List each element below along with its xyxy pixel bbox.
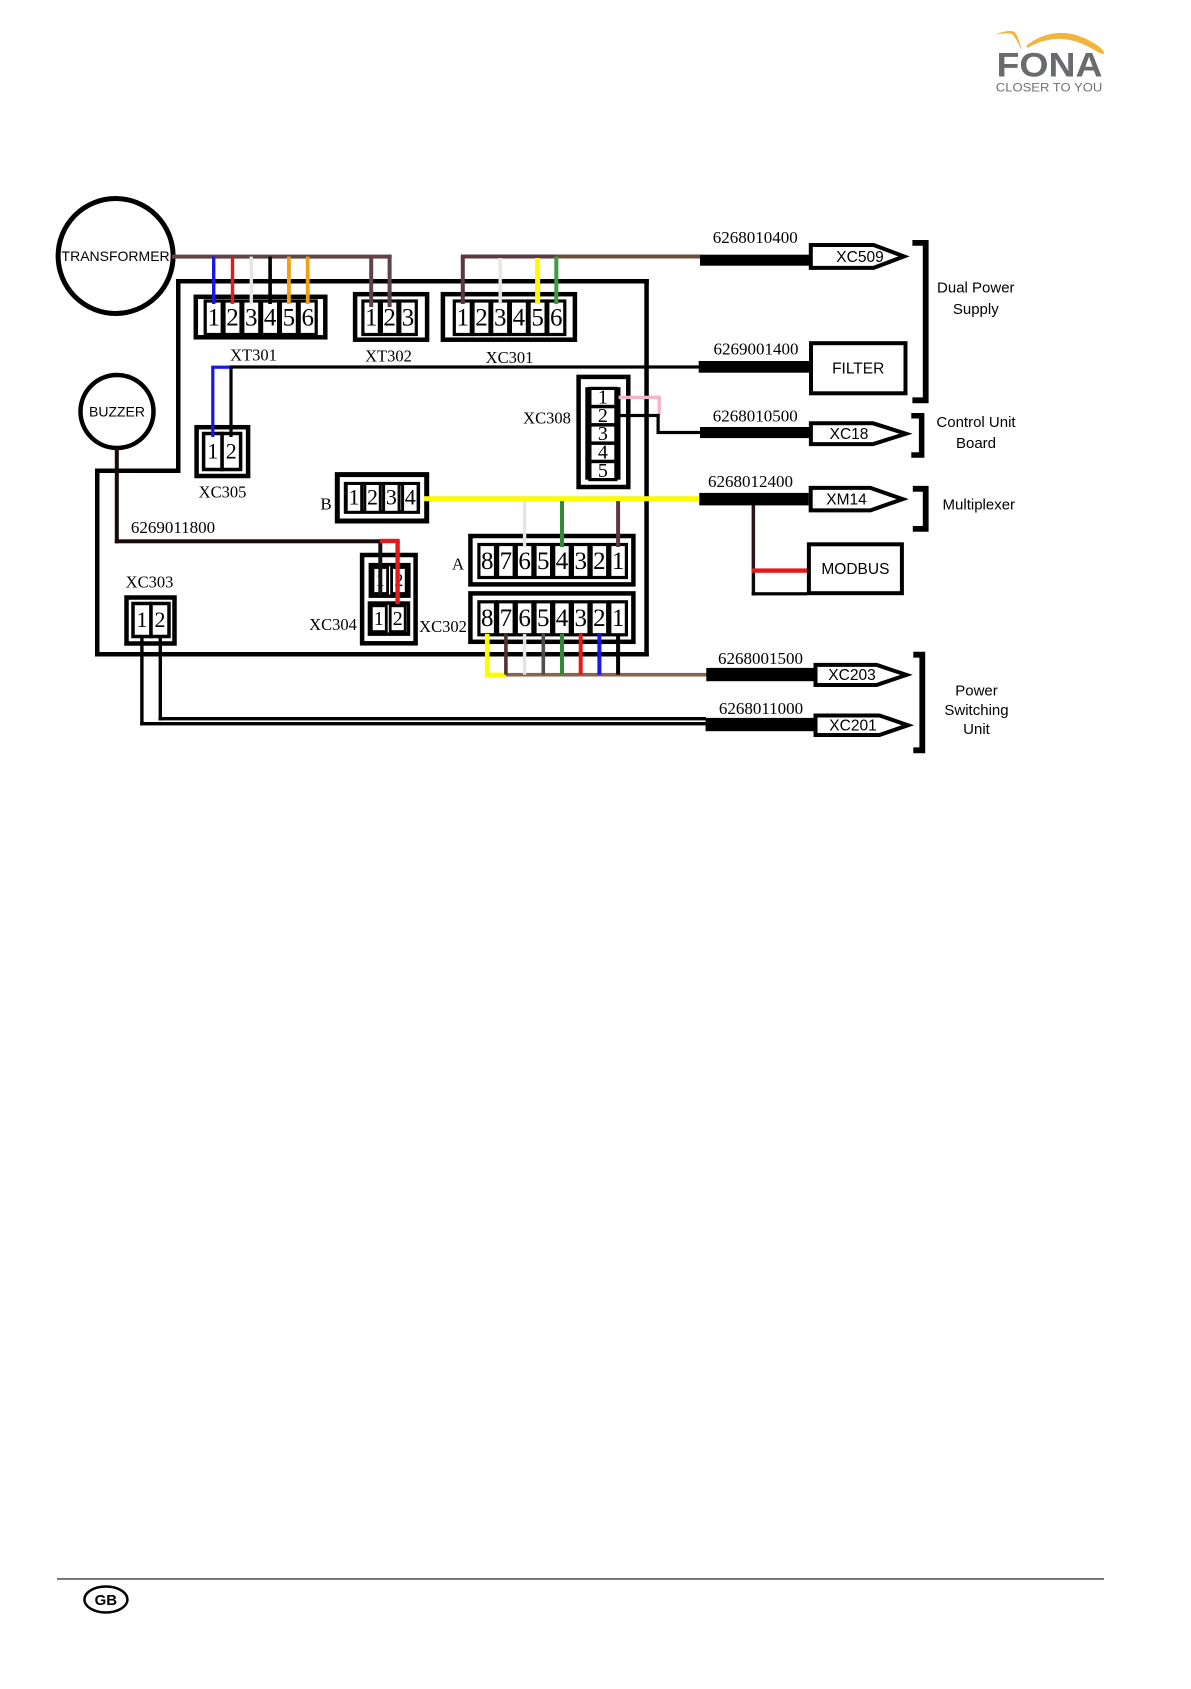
- svg-text:2: 2: [226, 438, 237, 463]
- svg-text:1: 1: [612, 548, 625, 575]
- connector XC201 (arrow): [816, 716, 909, 736]
- wire XT301 pin1 blue: [212, 257, 215, 304]
- wire XC302 pin4 green: [560, 634, 564, 675]
- svg-text:5: 5: [598, 460, 608, 482]
- wire XC308 pin1 pink: [619, 396, 661, 415]
- svg-text:1: 1: [349, 485, 360, 510]
- svg-text:4: 4: [556, 605, 569, 632]
- svg-text:3: 3: [245, 305, 258, 332]
- wire into XC304 lower pin2 (red): [380, 539, 400, 604]
- svg-text:6: 6: [518, 548, 531, 575]
- svg-text:XC509: XC509: [836, 249, 883, 266]
- svg-text:3: 3: [574, 548, 587, 575]
- cable 6268012400: [699, 493, 808, 506]
- cable 6268010500: [700, 427, 809, 438]
- wire XC302 pin6 white: [523, 634, 526, 675]
- MODBUS box: [809, 544, 902, 593]
- svg-text:Supply: Supply: [953, 301, 999, 318]
- wire bundle to 6268001500 (brown): [506, 673, 707, 677]
- label Control Unit Board: [936, 414, 1016, 452]
- svg-text:5: 5: [537, 605, 550, 632]
- svg-text:Dual Power: Dual Power: [937, 280, 1015, 297]
- connector XC301: [443, 294, 575, 340]
- label Dual Power Supply: [937, 280, 1015, 319]
- svg-text:1: 1: [457, 305, 470, 332]
- svg-text:Switching: Switching: [944, 702, 1008, 719]
- svg-text:6269001400: 6269001400: [714, 340, 799, 359]
- svg-text:TRANSFORMER: TRANSFORMER: [62, 248, 170, 264]
- label XC308: [523, 409, 571, 428]
- label XT301: [230, 346, 277, 365]
- svg-text:7: 7: [500, 605, 513, 632]
- svg-text:1: 1: [365, 305, 378, 332]
- wire into XC304 upper pin1 (black): [378, 541, 382, 596]
- connector XC509 (arrow): [811, 245, 904, 268]
- svg-text:3: 3: [574, 605, 587, 632]
- wire A pin4 green: [560, 501, 564, 547]
- bracket Control Unit Board: [911, 413, 924, 458]
- wire transformer bundle (brown): [172, 255, 392, 259]
- svg-text:4: 4: [513, 305, 526, 332]
- connector XC302: [470, 593, 633, 641]
- connector XC18 (arrow): [811, 423, 906, 444]
- label XC301: [486, 348, 534, 367]
- svg-text:XC308: XC308: [523, 409, 571, 428]
- wire XC301 pin1 brown: [461, 257, 465, 305]
- control board outline: [95, 279, 649, 657]
- svg-text:6268001500: 6268001500: [718, 649, 803, 668]
- label XC305: [199, 483, 247, 502]
- connector XC308: [579, 377, 629, 487]
- wire XC301 pin6 green: [554, 257, 558, 305]
- wire XT301 pin5 orange: [287, 257, 291, 304]
- wire XT302 pin2 brown: [388, 255, 392, 307]
- svg-text:BUZZER: BUZZER: [89, 404, 145, 420]
- svg-text:3: 3: [386, 485, 397, 510]
- wire XC302 pin2 blue: [597, 634, 601, 675]
- svg-text:XC304: XC304: [309, 615, 357, 634]
- svg-text:2: 2: [593, 605, 606, 632]
- label Power Switching Unit: [944, 683, 1008, 739]
- svg-text:Control Unit: Control Unit: [936, 414, 1016, 431]
- svg-text:5: 5: [537, 548, 550, 575]
- svg-text:Board: Board: [956, 435, 996, 452]
- label Multiplexer: [943, 497, 1016, 514]
- svg-text:6269011800: 6269011800: [131, 518, 215, 537]
- svg-text:XC203: XC203: [828, 667, 875, 684]
- svg-text:1: 1: [612, 605, 625, 632]
- wire XC302 pin8 yellow: [485, 634, 506, 677]
- wire XC302 pin7 brown: [504, 634, 508, 675]
- svg-text:8: 8: [481, 605, 494, 632]
- svg-text:B: B: [320, 495, 331, 514]
- connector XC303: [127, 598, 175, 644]
- wire XM14 to MODBUS drop (dark): [752, 505, 807, 595]
- bracket Multiplexer: [913, 486, 929, 532]
- wire XC305 pin1 blue: [211, 366, 229, 437]
- label 6268001500: [718, 649, 803, 668]
- buzzer: [81, 375, 154, 448]
- FONA logo wordmark: [997, 46, 1103, 84]
- label 6268011000: [719, 699, 803, 718]
- svg-text:1: 1: [137, 607, 148, 632]
- GB language badge: [84, 1587, 127, 1613]
- svg-text:4: 4: [556, 548, 569, 575]
- svg-text:5: 5: [531, 305, 544, 332]
- svg-text:1: 1: [374, 608, 384, 630]
- connector XC305: [197, 427, 249, 476]
- svg-text:2: 2: [475, 305, 488, 332]
- connector XC203 (arrow): [816, 665, 907, 685]
- bracket Dual Power Supply: [912, 240, 928, 403]
- svg-text:5: 5: [283, 305, 296, 332]
- label XC304: [309, 615, 357, 634]
- svg-text:8: 8: [481, 548, 494, 575]
- transformer: [58, 199, 173, 314]
- svg-text:3: 3: [494, 305, 507, 332]
- label XC303: [126, 573, 174, 592]
- connector B: [337, 475, 426, 521]
- wire XC302 pin3 red: [579, 634, 583, 675]
- label 6268012400: [708, 472, 793, 491]
- svg-text:XC305: XC305: [199, 483, 247, 502]
- svg-text:6268010400: 6268010400: [713, 228, 798, 247]
- wire buzzer 6269011800: [115, 448, 383, 543]
- label 6269011800: [131, 518, 215, 537]
- svg-text:2: 2: [383, 305, 396, 332]
- cable 6269001400: [699, 361, 809, 373]
- svg-text:7: 7: [500, 548, 513, 575]
- svg-text:Multiplexer: Multiplexer: [943, 497, 1016, 514]
- label 6268010400: [713, 228, 798, 247]
- svg-text:Unit: Unit: [963, 721, 991, 738]
- wire XC308 pin2 to XC18 cable (black): [621, 414, 701, 434]
- wire B to XM14 (yellow): [424, 496, 700, 501]
- svg-text:3: 3: [402, 305, 415, 332]
- svg-text:A: A: [452, 555, 465, 574]
- wire A pin1 brown: [616, 501, 620, 547]
- svg-text:6268010500: 6268010500: [713, 407, 798, 426]
- connector XT302: [355, 294, 427, 340]
- bracket Power Switching Unit: [913, 652, 925, 753]
- connector XC304: [362, 555, 416, 643]
- svg-text:XM14: XM14: [826, 492, 867, 509]
- wire A pin6 white: [523, 501, 526, 547]
- wire XT302 pin1 brown: [369, 257, 373, 307]
- cable 6268010400: [700, 255, 809, 266]
- svg-text:FILTER: FILTER: [832, 361, 884, 378]
- svg-text:6: 6: [518, 605, 531, 632]
- svg-text:GB: GB: [95, 1592, 118, 1609]
- svg-text:6: 6: [301, 305, 314, 332]
- svg-text:2: 2: [393, 608, 403, 630]
- svg-text:6: 6: [550, 305, 563, 332]
- connector XM14 (arrow): [811, 488, 903, 511]
- label 6269001400: [714, 340, 799, 359]
- svg-text:1: 1: [207, 438, 218, 463]
- wire XT301 pin4 black: [268, 257, 272, 304]
- svg-text:XC302: XC302: [419, 617, 467, 636]
- svg-text:MODBUS: MODBUS: [821, 561, 889, 578]
- wire XC301 cable bundle to 6268010400: [461, 255, 701, 259]
- svg-text:2: 2: [367, 485, 378, 510]
- wire XC302 pin1 black: [616, 634, 620, 675]
- FONA logo swoosh: [995, 31, 1104, 54]
- wire XT301 pin2 red: [231, 257, 234, 304]
- wire XC305 to filter line (black): [229, 365, 699, 437]
- svg-text:1: 1: [207, 305, 220, 332]
- connector A: [470, 536, 633, 584]
- svg-text:XT301: XT301: [230, 346, 277, 365]
- label XC302: [419, 617, 467, 636]
- cable 6268011000: [706, 718, 814, 731]
- svg-text:CLOSER TO YOU: CLOSER TO YOU: [996, 80, 1102, 94]
- footer rule: [57, 1578, 1104, 1580]
- label XT302: [365, 347, 412, 366]
- svg-text:6268011000: 6268011000: [719, 699, 803, 718]
- svg-text:XC201: XC201: [829, 718, 876, 735]
- svg-text:XT302: XT302: [365, 347, 412, 366]
- wire XC301 pin3 white: [499, 258, 502, 304]
- wire XC301 pin5 yellow: [535, 258, 540, 304]
- svg-text:4: 4: [264, 305, 277, 332]
- label A: [452, 555, 465, 574]
- connector XT301: [196, 297, 325, 338]
- svg-text:XC303: XC303: [126, 573, 174, 592]
- svg-text:4: 4: [405, 485, 416, 510]
- svg-text:Power: Power: [955, 683, 998, 700]
- wire XT301 pin3 white: [250, 257, 253, 304]
- wire MODBUS red: [752, 568, 807, 572]
- wire XC302 pin5 gray: [542, 634, 546, 675]
- svg-text:2: 2: [226, 305, 239, 332]
- svg-text:2: 2: [593, 548, 606, 575]
- svg-text:2: 2: [155, 607, 166, 632]
- svg-text:XC301: XC301: [486, 348, 534, 367]
- label 6268010500: [713, 407, 798, 426]
- svg-text:FONA: FONA: [997, 46, 1103, 84]
- svg-text:6268012400: 6268012400: [708, 472, 793, 491]
- cable 6268001500: [706, 668, 813, 681]
- wire XT301 pin6 orange: [306, 257, 310, 304]
- wire XC303 pin2 to XC201: [159, 636, 706, 720]
- svg-text:XC18: XC18: [830, 426, 869, 443]
- wire XC303 pin1 to XC201: [140, 636, 706, 725]
- label B: [320, 495, 331, 514]
- FILTER box: [811, 343, 906, 393]
- FONA logo tagline CLOSER TO YOU: [996, 80, 1102, 94]
